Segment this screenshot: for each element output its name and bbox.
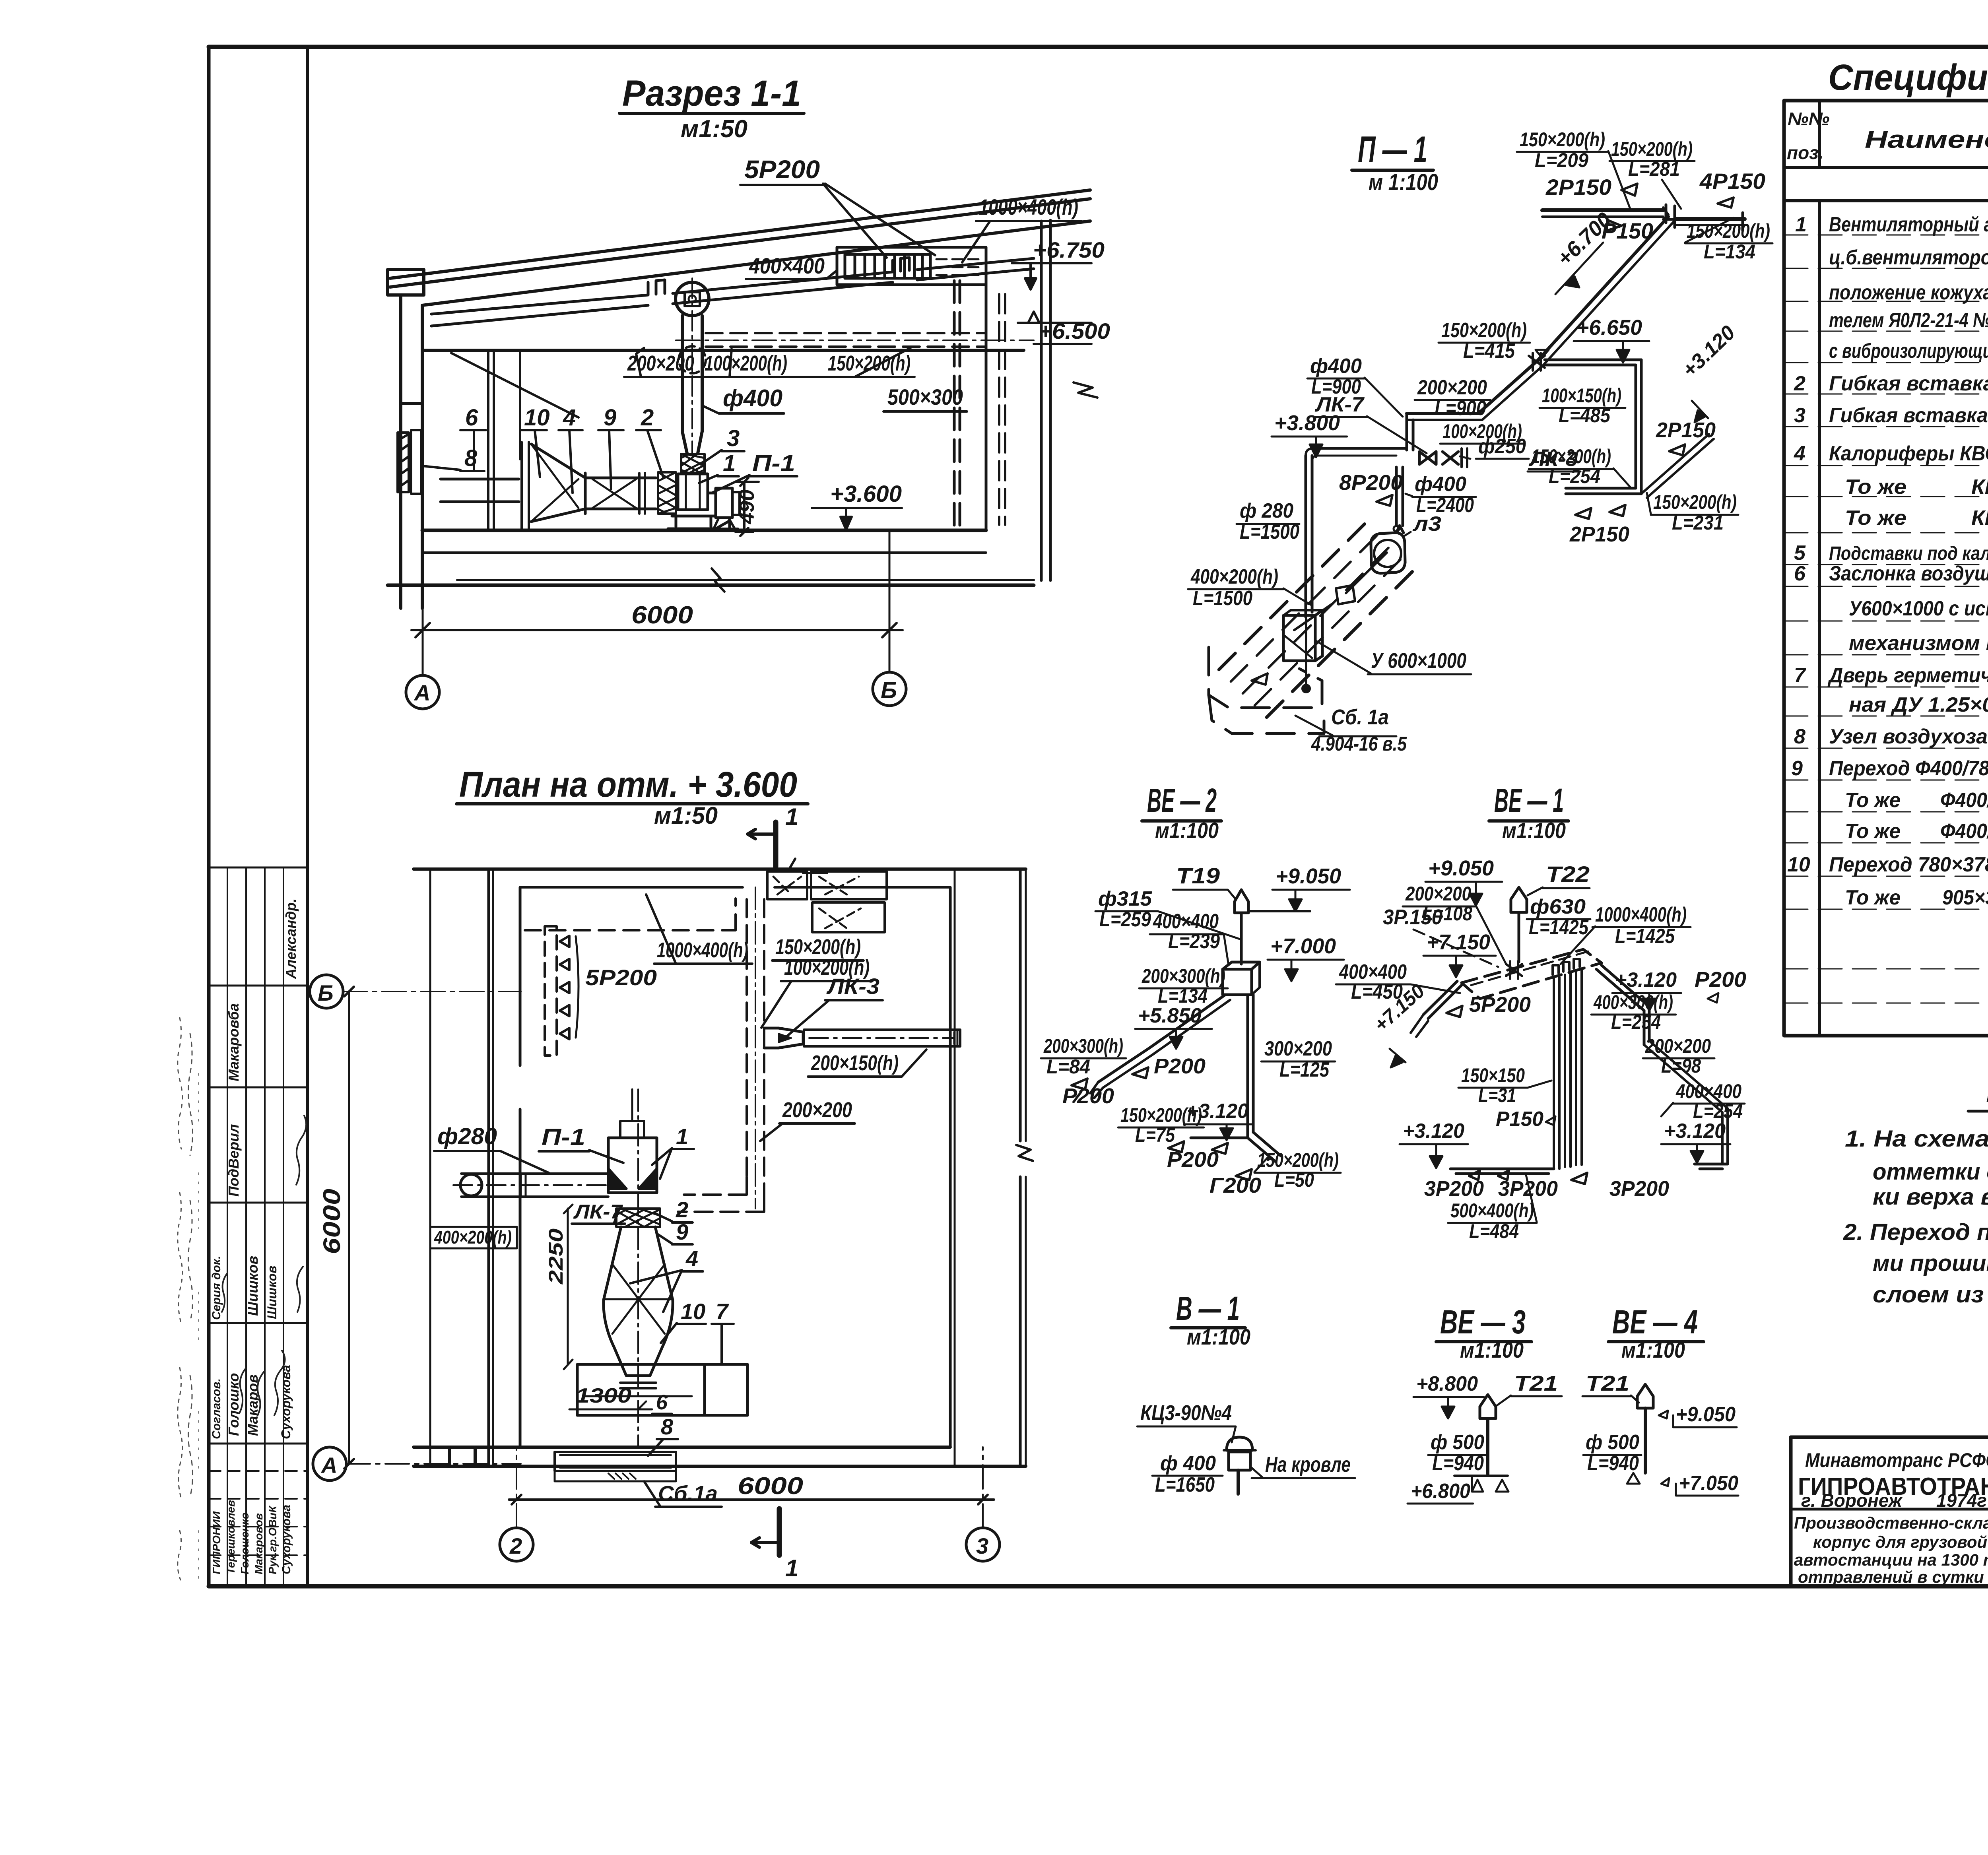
svg-text:Р150: Р150 [1496, 1108, 1543, 1131]
svg-text:То же: То же [1845, 506, 1906, 530]
svg-text:+7.150: +7.150 [1427, 930, 1490, 954]
plan outer left wall [430, 869, 520, 1466]
plan right walls [950, 869, 1033, 1466]
svg-text:Макаровба: Макаровба [225, 1003, 242, 1081]
svg-text:м1:100: м1:100 [1155, 818, 1219, 843]
svg-text:1000×400(h): 1000×400(h) [979, 194, 1078, 219]
svg-text:ф400: ф400 [1415, 473, 1466, 496]
label 500x400 L484 [1448, 1175, 1537, 1242]
table column lines [1819, 101, 1988, 1036]
table header text [1787, 106, 1988, 166]
top duct horizontal [1542, 205, 1745, 231]
frame left [207, 47, 211, 1585]
svg-text:Узел воздухозабора (сб. 1а): Узел воздухозабора (сб. 1а) [1829, 725, 1988, 748]
svg-text:3Р200: 3Р200 [1424, 1177, 1484, 1201]
elevation +3.120 VE2 [1184, 1100, 1252, 1140]
svg-text:отправлений в сутки: отправлений в сутки [1798, 1568, 1984, 1586]
label 100x200(h) [1440, 420, 1524, 444]
svg-text:9: 9 [604, 405, 616, 431]
left vertical duct F280 [1306, 448, 1407, 617]
label 150x200 L50 [1254, 1149, 1341, 1191]
duct to right with cone [764, 1028, 960, 1048]
elevation +6.500 [1018, 312, 1110, 344]
svg-text:10: 10 [1787, 853, 1810, 876]
stamp column right edge [306, 47, 309, 1585]
svg-text:Рук.гр.ОВиК: Рук.гр.ОВиК [266, 1505, 279, 1574]
svg-text:3: 3 [976, 1533, 988, 1558]
label 5P200 [740, 155, 935, 258]
svg-text:400×200(h): 400×200(h) [1190, 565, 1278, 588]
axis bubble A [406, 644, 439, 709]
junction cluster [1529, 350, 1549, 371]
svg-text:ф 400: ф 400 [1160, 1452, 1216, 1475]
main diagonal duct [1537, 217, 1674, 366]
stamp rotated signatures [210, 898, 299, 1574]
svg-text:7: 7 [1794, 664, 1806, 687]
svg-text:150×200(h): 150×200(h) [1120, 1104, 1202, 1126]
svg-text:L=1500: L=1500 [1193, 587, 1252, 610]
5P200 battery [545, 926, 579, 1056]
svg-text:8: 8 [661, 1414, 674, 1439]
svg-text:Александр.: Александр. [283, 898, 299, 979]
svg-text:1974г: 1974г [1936, 1490, 1987, 1511]
svg-text:Сухорукова: Сухорукова [280, 1505, 293, 1574]
svg-text:3Р.150: 3Р.150 [1383, 905, 1442, 929]
svg-text:Серия док.: Серия док. [210, 1256, 223, 1320]
svg-text:150×200(h): 150×200(h) [1687, 220, 1770, 242]
svg-text:Терешковлев: Терешковлев [225, 1500, 237, 1574]
dim 1300 [569, 1384, 652, 1409]
svg-text:ф 280: ф 280 [1240, 499, 1293, 522]
leader P-1 [712, 450, 797, 493]
label 9 plan [658, 1219, 693, 1244]
label 7 plan [712, 1299, 734, 1364]
svg-text:2: 2 [641, 405, 654, 431]
svg-text:слоем из алюминиевых листов.: слоем из алюминиевых листов. [1873, 1282, 1988, 1308]
+7.150 rotated [1370, 980, 1429, 1067]
svg-text:ф400: ф400 [1310, 355, 1362, 378]
svg-text:Разрез 1-1: Разрез 1-1 [622, 73, 801, 114]
scan noise strip left of frame [178, 1018, 199, 1580]
label 200x150(h) plan [808, 1050, 926, 1077]
table body text [1787, 213, 1988, 909]
svg-text:2Р150: 2Р150 [1545, 175, 1611, 200]
note 1 [1845, 1126, 1988, 1210]
label F280 L1500 [1237, 499, 1299, 543]
svg-text:ВЕ — 4: ВЕ — 4 [1612, 1303, 1698, 1341]
flag 2P150 right [1656, 418, 1716, 455]
flag 5P200 VE1 [1446, 993, 1531, 1017]
svg-text:+9.050: +9.050 [1428, 856, 1494, 880]
svg-text:Согласов.: Согласов. [210, 1378, 223, 1439]
svg-text:Г200: Г200 [1209, 1174, 1261, 1197]
svg-text:6: 6 [1794, 562, 1806, 585]
svg-text:ф630: ф630 [1530, 895, 1586, 918]
unit P-1 plan [592, 1089, 657, 1197]
damper box U600x1000 [1283, 610, 1322, 661]
vertical duct F400 down to fan [1396, 467, 1404, 533]
svg-text:905×378/600×948: 905×378/600×948 [1942, 886, 1988, 909]
svg-text:9: 9 [676, 1219, 688, 1244]
label T19 [1173, 863, 1236, 899]
table outer border [1784, 101, 1988, 1036]
svg-text:м1:50: м1:50 [681, 115, 747, 143]
label T21 VE3 [1497, 1372, 1562, 1405]
svg-text:3: 3 [1794, 404, 1806, 427]
svg-text:м1:100: м1:100 [1187, 1324, 1250, 1349]
svg-text:200×200: 200×200 [782, 1098, 852, 1122]
flag 4P150 [1699, 169, 1765, 208]
svg-text:ЛК-7: ЛК-7 [1314, 393, 1365, 416]
label KTs3-90 N4 [1137, 1401, 1236, 1442]
wall air intake hatched [398, 430, 421, 494]
svg-text:То же: То же [1845, 475, 1906, 499]
label 300x200 L125 [1261, 1037, 1335, 1081]
svg-text:4: 4 [563, 405, 576, 431]
svg-text:Голошенко: Голошенко [239, 1512, 251, 1574]
fan ax [1294, 526, 1405, 630]
svg-text:150×200(h): 150×200(h) [1520, 128, 1605, 151]
svg-text:Производственно-складской: Производственно-складской [1794, 1513, 1988, 1532]
label 400x200 L1500 [1188, 565, 1311, 610]
label P200 G200 [1167, 1148, 1261, 1197]
cut mark top [747, 803, 798, 867]
label 1000x400(h) plan [646, 895, 752, 964]
svg-text:200×200: 200×200 [1417, 376, 1487, 399]
svg-text:5Р200: 5Р200 [744, 155, 820, 184]
plan top wall [414, 859, 1026, 887]
svg-text:ки верха воздуховодов.: ки верха воздуховодов. [1873, 1184, 1988, 1210]
svg-text:м1:100: м1:100 [1502, 818, 1566, 843]
svg-text:150×200(h): 150×200(h) [1441, 319, 1527, 342]
leader 1 [699, 450, 739, 483]
label 2 plan [655, 1197, 693, 1222]
heater duct dashed band [1213, 524, 1412, 723]
leader 2 [636, 405, 663, 477]
svg-text:9: 9 [1791, 757, 1803, 780]
svg-text:Минавтотранс РСФСР: Минавтотранс РСФСР [1805, 1449, 1988, 1471]
svg-text:+9.050: +9.050 [1276, 864, 1341, 888]
svg-text:8: 8 [464, 445, 478, 471]
svg-text:Т19: Т19 [1176, 863, 1220, 888]
label 1000x400(h) [962, 194, 1081, 262]
svg-text:Сб.1а: Сб.1а [658, 1482, 718, 1506]
svg-text:150×200(h): 150×200(h) [1653, 491, 1737, 513]
svg-text:В — 1: В — 1 [1176, 1290, 1240, 1327]
label 150x200 L75 [1118, 1104, 1204, 1146]
elevation +3.120 right [1612, 968, 1746, 1011]
table header lines [1784, 166, 1988, 169]
label 500x300 [883, 384, 967, 411]
svg-text:корпус для грузовой: корпус для грузовой [1813, 1533, 1987, 1551]
axis 3 bubble [966, 1447, 1000, 1561]
svg-text:А: А [320, 1453, 337, 1478]
svg-text:На кровле: На кровле [1265, 1453, 1351, 1477]
svg-text:ф 500: ф 500 [1586, 1431, 1639, 1454]
svg-text:1000×400(h): 1000×400(h) [1595, 903, 1687, 926]
svg-text:ВЕ — 1: ВЕ — 1 [1494, 782, 1564, 819]
label 200x200 L900 [1415, 376, 1490, 420]
svg-text:+5.850: +5.850 [1138, 1004, 1202, 1027]
svg-text:ф315: ф315 [1098, 887, 1152, 910]
svg-text:Т22: Т22 [1546, 862, 1590, 887]
svg-text:400×200(h): 400×200(h) [434, 1227, 512, 1248]
stamp sub columns [227, 867, 283, 1585]
svg-text:Гибкая вставка ВНЯ4: Гибкая вставка ВНЯ4 [1829, 404, 1988, 427]
axis 2 bubble [500, 1447, 533, 1561]
VE2 vertical duct [1248, 995, 1253, 1138]
VE4 chimney [1637, 1384, 1653, 1473]
label 150x200 L415 [1439, 319, 1530, 363]
label 6 plan [652, 1391, 672, 1414]
label 100x200(h) plan [761, 956, 872, 1028]
VE1 base right [1695, 1164, 1728, 1169]
label 400x300 L254 [1591, 991, 1676, 1033]
axis bubble B [873, 644, 906, 706]
leader 9 [598, 405, 623, 489]
label F500 L940 VE4 [1583, 1431, 1641, 1475]
svg-text:г. Воронеж: г. Воронеж [1801, 1490, 1903, 1511]
dim 490 [736, 478, 759, 536]
elevation +3.120 base left [1400, 1120, 1468, 1168]
svg-text:То же: То же [1845, 886, 1901, 909]
label 150x200 L231 [1647, 491, 1738, 534]
svg-text:6000: 6000 [738, 1473, 803, 1499]
grille box 400x400 [837, 247, 986, 285]
label T21 VE4 [1582, 1372, 1639, 1403]
elevation +7.000 [1268, 934, 1344, 981]
svg-text:1. На схемах для круглых возду: 1. На схемах для круглых воздуховодов да… [1845, 1126, 1988, 1152]
VE1 base left [1450, 1169, 1554, 1180]
svg-text:Ф400/905×378: Ф400/905×378 [1940, 789, 1988, 812]
elevation +9.050 VE2 [1272, 864, 1350, 911]
svg-text:+3.120: +3.120 [1678, 321, 1739, 382]
svg-text:10: 10 [524, 405, 550, 431]
section interior partitions [451, 350, 579, 530]
svg-text:Сухорукова: Сухорукова [279, 1365, 293, 1439]
elevation +3.120 base right [1661, 1120, 1730, 1163]
svg-text:П-1: П-1 [542, 1124, 585, 1150]
svg-text:8: 8 [1794, 725, 1806, 748]
svg-text:поз.: поз. [1787, 142, 1823, 163]
label LK-7 ax [1314, 393, 1427, 453]
VE1 right branch [1596, 965, 1728, 1164]
label +7.050 VE4 [1627, 1472, 1738, 1496]
label L3 [1404, 512, 1441, 536]
label 5P200 plan [585, 965, 657, 990]
note 2 [1843, 1219, 1988, 1308]
label 200x200 L98 [1643, 1035, 1714, 1077]
svg-text:200×300(h): 200×300(h) [1043, 1035, 1123, 1057]
elevation +3.800 [1272, 411, 1347, 457]
svg-text:5: 5 [1794, 541, 1806, 565]
label 150x200 L134 [1685, 218, 1773, 263]
svg-text:4Р150: 4Р150 [1699, 169, 1765, 194]
svg-text:300×200: 300×200 [1264, 1037, 1332, 1060]
vertical duct F400 [679, 278, 706, 453]
svg-text:м1:50: м1:50 [654, 802, 718, 829]
stamp bottom band rows [209, 1471, 307, 1555]
VE3 chimney [1454, 1395, 1508, 1476]
svg-text:6000: 6000 [318, 1189, 345, 1254]
svg-text:Р200: Р200 [1695, 968, 1746, 992]
svg-text:П-1: П-1 [752, 450, 795, 476]
svg-text:200×200: 200×200 [1405, 883, 1471, 905]
roof slab lines [390, 190, 1090, 305]
svg-text:КВС4-П: КВС4-П [1971, 475, 1988, 499]
svg-text:4: 4 [685, 1246, 698, 1271]
VE1 left diagonal stub [1411, 981, 1462, 1037]
svg-text:Шишков: Шишков [245, 1256, 261, 1316]
svg-text:План на отм. + 3.600: План на отм. + 3.600 [459, 765, 797, 805]
flag 2P150 bottom [1569, 505, 1629, 546]
svg-text:Заслонка воздушная утепленна: Заслонка воздушная утепленная [1829, 562, 1988, 585]
svg-text:Вентиляторный агрегат Я4 105-: Вентиляторный агрегат Я4 105-2с [1829, 213, 1988, 236]
svg-text:с виброизолирующим основанием: с виброизолирующим основанием [1829, 340, 1988, 363]
cut mark bottom [751, 1509, 798, 1581]
svg-text:То же: То же [1845, 820, 1901, 843]
VE1 pipe bundle [1554, 969, 1582, 1169]
Sb1a unit plan [555, 1452, 676, 1481]
suspended duct dashed [676, 333, 1034, 347]
svg-text:Наименование: Наименование [1865, 126, 1988, 153]
label 200x300 L84 [1041, 1035, 1126, 1078]
svg-text:1300: 1300 [576, 1384, 631, 1407]
label LK-7 plan [572, 1201, 625, 1224]
svg-text:200×150(h): 200×150(h) [811, 1051, 899, 1075]
svg-text:8Р200: 8Р200 [1339, 471, 1403, 495]
svg-text:Р200: Р200 [1062, 1084, 1114, 1108]
svg-text:7: 7 [716, 1299, 729, 1324]
svg-text:Спецификация марок установки: Спецификация марок установки [1828, 57, 1988, 98]
label 200x200 L108 [1403, 883, 1506, 964]
frame bottom [209, 1584, 1988, 1589]
VE2 base [1168, 1132, 1281, 1162]
junction X cluster [1506, 961, 1522, 979]
svg-text:150×150: 150×150 [1461, 1064, 1525, 1087]
label 100x150 L485 [1540, 384, 1625, 427]
label +9.050 VE4 [1659, 1403, 1737, 1427]
svg-text:То же: То же [1845, 789, 1901, 812]
flag triangle heater [1252, 673, 1268, 685]
svg-text:Р200: Р200 [1167, 1148, 1219, 1172]
svg-text:6: 6 [656, 1391, 668, 1414]
frame top [209, 45, 1988, 49]
elevation +6.700 on slope [1553, 208, 1616, 294]
base slab plan [577, 1364, 747, 1415]
VE1 slab [1462, 949, 1602, 999]
dim 6000 plan bottom [509, 1473, 994, 1504]
svg-text:2: 2 [509, 1533, 522, 1558]
svg-text:ная ДУ 1.25×0.5: ная ДУ 1.25×0.5 [1849, 693, 1988, 716]
flag 8P200 [1339, 471, 1403, 506]
right wall columns [954, 220, 1097, 580]
label F400 L900 [1307, 355, 1403, 417]
flexible insert hatched [681, 454, 705, 473]
svg-text:Б: Б [881, 677, 897, 703]
svg-text:2Р150: 2Р150 [1656, 418, 1716, 442]
svg-text:6000: 6000 [631, 602, 693, 629]
svg-text:+9.050: +9.050 [1676, 1403, 1736, 1426]
svg-text:Переход Ф400/780×378: Переход Ф400/780×378 [1829, 757, 1988, 780]
label F400 L1650 [1152, 1452, 1223, 1496]
label F315 L259 [1095, 887, 1240, 939]
svg-text:отметки оси, для прямоугольных: отметки оси, для прямоугольных - отмет- [1873, 1159, 1988, 1185]
label +6.800 [1408, 1476, 1508, 1504]
svg-text:100×200(h): 100×200(h) [705, 351, 787, 375]
svg-text:КВБ3-П: КВБ3-П [1971, 506, 1988, 530]
svg-text:Б: Б [318, 980, 334, 1005]
truss chord 1 [431, 280, 665, 326]
svg-text:5Р200: 5Р200 [1469, 993, 1531, 1017]
svg-text:2250: 2250 [545, 1228, 567, 1285]
label P150 [1496, 1108, 1555, 1131]
label 150x200 L281 [1609, 138, 1695, 209]
label F400 [704, 385, 784, 413]
svg-text:1: 1 [785, 803, 798, 830]
svg-text:ф 500: ф 500 [1431, 1431, 1484, 1454]
svg-text:автостанции на 1300 тонн: автостанции на 1300 тонн [1794, 1550, 1988, 1569]
svg-text:А: А [414, 680, 430, 705]
F280 duct from left [453, 1174, 608, 1197]
svg-text:ми прошивными матами б=60мм с: ми прошивными матами б=60мм с покровным [1873, 1250, 1988, 1276]
svg-text:Дверь герметическая утеплен-: Дверь герметическая утеплен- [1827, 664, 1988, 687]
plan bottom wall [414, 1447, 1026, 1466]
svg-text:500×400(h): 500×400(h) [1450, 1199, 1534, 1222]
leader 3 [701, 425, 744, 464]
label LK-3 plan [785, 974, 883, 1038]
svg-text:490: 490 [736, 489, 759, 524]
label 400x400 [746, 253, 837, 279]
ceiling line [422, 349, 1024, 352]
elevation +3.600 [812, 481, 902, 530]
svg-text:ГИПРОНИИ: ГИПРОНИИ [210, 1511, 223, 1574]
leader 4 [559, 405, 582, 493]
truss chord 2 [673, 258, 909, 304]
iso cube [1223, 962, 1260, 995]
flag 2P150 top [1545, 175, 1637, 200]
labels 3P200 [1424, 1173, 1669, 1201]
svg-text:1: 1 [676, 1124, 688, 1149]
svg-text:Р200: Р200 [1154, 1054, 1206, 1078]
stamp column dividers [209, 867, 307, 1444]
intake flex hatched [658, 472, 676, 514]
svg-text:+3.120: +3.120 [1664, 1120, 1726, 1143]
T22 deflector [1511, 887, 1527, 962]
svg-text:ЛК-3: ЛК-3 [1528, 448, 1578, 471]
label 1 plan [652, 1124, 694, 1179]
svg-text:Сб. 1а: Сб. 1а [1331, 705, 1389, 729]
svg-text:Ф400/780×378: Ф400/780×378 [1940, 820, 1988, 843]
label 3P150 [1383, 905, 1498, 967]
label Na krovle [1252, 1453, 1355, 1478]
svg-text:1: 1 [723, 450, 736, 476]
flags P200 VE2 [1062, 1054, 1206, 1108]
svg-text:+6.800: +6.800 [1411, 1480, 1470, 1503]
svg-text:+3.600: +3.600 [830, 481, 902, 507]
label 1000x400 L1425 [1561, 903, 1691, 964]
label 8 plan [648, 1414, 678, 1456]
svg-text:У 600×1000: У 600×1000 [1371, 649, 1466, 673]
svg-text:2: 2 [1794, 372, 1806, 395]
svg-text:Калориферы КВС3-П: Калориферы КВС3-П [1829, 442, 1988, 465]
elevation +9.050 VE1 [1425, 856, 1502, 906]
flag P150 [1602, 218, 1653, 243]
svg-text:5Р200: 5Р200 [585, 965, 657, 990]
svg-text:м 1:100: м 1:100 [1369, 169, 1438, 195]
label 10 plan [661, 1299, 706, 1343]
label 150x150 L31 [1458, 1064, 1551, 1106]
